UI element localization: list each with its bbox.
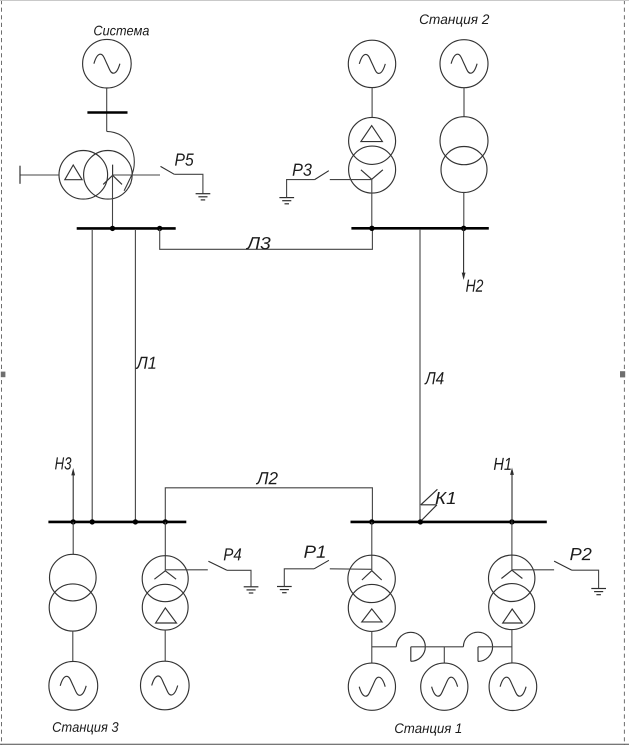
disconnector P1 (blade)	[314, 560, 329, 569]
generator G4 (Станция 3, right)	[141, 661, 190, 710]
ground (P5)	[196, 194, 211, 200]
wire: ground riser to P3	[287, 180, 315, 198]
junction on busbar 1 at T5 feeder	[110, 226, 115, 231]
wire: P5 to ground	[174, 174, 203, 193]
ground (P3)	[279, 198, 294, 204]
label Л3	[246, 237, 271, 249]
transformer T6 winding 1	[50, 554, 97, 601]
ground (P2)	[591, 589, 606, 595]
wire: T2 star to disconnector P2	[512, 569, 554, 571]
disconnector P3 (blade)	[315, 171, 329, 180]
wire: T6 to G3	[72, 631, 74, 661]
generator G2 (Станция 2, right)	[440, 40, 488, 88]
wire: junction to reactor LR1	[372, 646, 397, 648]
junction on busbar 3 at Н3 / T feeder	[71, 519, 76, 524]
generator G7 (Станция 1, right)	[489, 663, 537, 711]
disconnector P2 (blade)	[554, 561, 572, 570]
generator G (Система)	[83, 39, 132, 88]
label Н1	[494, 458, 511, 470]
generator G1 (Станция 2, left)	[348, 40, 395, 87]
wire: P4 to ground	[227, 570, 251, 586]
wire: busbar 3 to T7 star (Станция 3 right)	[164, 522, 166, 571]
transformer T2 winding 1 (star)	[489, 555, 535, 601]
transformer T3 winding 1 (delta)	[349, 117, 396, 164]
junction on busbar 1 at line Л3	[157, 226, 162, 231]
fault marker К1	[421, 489, 438, 520]
transformer T3 winding 2 (star)	[349, 146, 396, 193]
wire: T2 down through junction to G7	[511, 630, 513, 664]
generator G6 (Станция 1, middle)	[421, 663, 468, 710]
line Л3 (busbar 1 to busbar 2)	[160, 229, 373, 249]
label Л2	[256, 472, 278, 484]
wire: ground riser to P1	[284, 569, 314, 587]
line Л4 (busbar 2 to busbar 4)	[419, 229, 421, 521]
transformer T7 winding 1 (star)	[142, 556, 188, 602]
line Л1 (busbar 1 to busbar 3)	[134, 229, 136, 521]
label Р4	[224, 548, 241, 560]
wire: T5 star to disconnector P5	[113, 174, 160, 176]
busbar 4 (bottom right)	[351, 521, 547, 524]
wire: busbar 4 to T2 star (Станция 1 right)	[511, 522, 513, 570]
transformer T4 winding 2	[441, 147, 487, 193]
wire: T7 star to disconnector P4	[165, 569, 208, 571]
reactor LR2	[463, 632, 492, 661]
label Р3	[293, 163, 312, 175]
ground (P1)	[277, 587, 292, 593]
wire: T1 down through junction to G5	[371, 631, 373, 663]
terminal bar (system)	[87, 111, 127, 114]
label Станция 2	[420, 14, 489, 26]
wire: P2 to ground	[572, 570, 599, 588]
wire: G2 to transformer	[463, 88, 465, 117]
transformer T6 winding 2	[49, 584, 96, 631]
busbar 1 (top left)	[77, 227, 176, 230]
label Н2	[466, 279, 483, 291]
transformer T5 winding 2 (star)	[84, 151, 133, 200]
disconnector P4 (blade)	[208, 561, 227, 570]
label Л4	[424, 372, 443, 384]
junction on busbar 3 at tie wire	[90, 519, 95, 524]
wire: T7 to G4	[164, 630, 166, 661]
label Станция 1	[395, 723, 461, 735]
transformer T2 winding 2 (delta)	[489, 584, 535, 630]
wire: P1 to T1 star	[330, 568, 372, 571]
junction on busbar 4 at line Л4	[418, 519, 423, 524]
wire: T4 to busbar 2	[463, 192, 465, 228]
load H2 (arrow down)	[462, 228, 466, 280]
wire: curved lead into autotransformer T5	[107, 131, 135, 190]
wire: T5 star down to busbar 1	[112, 175, 114, 228]
transformer T4 winding 1	[440, 117, 488, 165]
terminal (left)	[19, 166, 21, 184]
wire: tie between busbar 1 and busbar 3	[91, 229, 93, 521]
junction on busbar 3 at line Л1	[133, 519, 138, 524]
busbar 2 (top right)	[351, 227, 488, 230]
label Р5	[175, 154, 194, 166]
label Система	[94, 26, 149, 36]
load H3 (arrow up)	[71, 468, 75, 522]
wire: reactor LR2 to right branch	[478, 646, 512, 648]
reactor LR1	[396, 632, 425, 661]
junction on busbar 4 at Л2 / T feeder	[369, 519, 374, 524]
wire: P3 to T3 star	[330, 179, 372, 181]
wire: left terminal to T5	[20, 174, 59, 176]
line Л2 (busbar 3 to busbar 4)	[165, 488, 372, 522]
label Н3	[55, 457, 71, 469]
generator G3 (Станция 3, left)	[49, 661, 98, 710]
label К1	[436, 492, 455, 504]
wire: G1 to transformer	[371, 88, 373, 118]
label Л1	[136, 357, 156, 369]
load H1 (arrow up)	[510, 468, 514, 522]
wire: middle generator feeder	[443, 647, 445, 663]
ground (P4)	[244, 587, 259, 593]
transformer T1 winding 2 (delta)	[348, 584, 395, 631]
transformer T7 winding 2 (delta)	[142, 584, 188, 630]
wire: busbar 3 to T6 (Станция 3 left)	[72, 522, 74, 554]
wire: T3 star down to busbar 2	[371, 179, 373, 228]
junction on busbar 2 at T3 / Л3	[369, 226, 374, 231]
disconnector P5 (blade)	[161, 166, 175, 174]
wire: reactor LR1 to reactor LR2	[411, 646, 464, 648]
label Р1	[304, 546, 325, 558]
label Станция 3	[53, 722, 119, 734]
label Р2	[570, 548, 591, 560]
junction on busbar 3 at line Л2	[163, 519, 168, 524]
wire: generator to terminal bar	[106, 88, 108, 131]
generator G5 (Станция 1, left)	[348, 663, 395, 710]
junction on busbar 4 at Н1 / T feeder	[509, 519, 514, 524]
transformer T5 winding 1 (delta)	[59, 151, 108, 200]
busbar 3 (bottom left)	[48, 521, 186, 524]
junction on busbar 2 at T4 / Н2	[461, 226, 466, 231]
wire: busbar 4 to T1 star (Станция 1 left)	[371, 522, 373, 571]
transformer T1 winding 1 (star)	[348, 555, 395, 602]
